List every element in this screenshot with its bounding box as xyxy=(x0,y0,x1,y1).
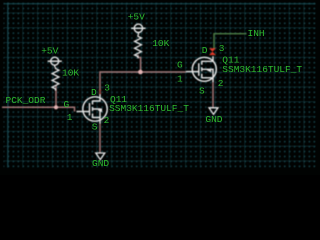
resistor R left 10K xyxy=(52,67,59,91)
svg-text:SSM3K116TULF_T: SSM3K116TULF_T xyxy=(109,103,189,114)
svg-text:SSM3K116TULF_T: SSM3K116TULF_T xyxy=(222,64,302,75)
wire right source to gnd xyxy=(212,82,214,108)
grid major lines xyxy=(4,3,316,168)
wire PCK_ODR net horizontal xyxy=(2,107,75,111)
power +5V left xyxy=(48,57,62,67)
svg-text:D: D xyxy=(91,87,97,98)
wire middle resistor down xyxy=(138,55,141,72)
svg-text:GND: GND xyxy=(205,114,222,125)
wire left drain up and across to right gate xyxy=(100,72,186,95)
svg-text:3: 3 xyxy=(104,83,110,94)
svg-text:10K: 10K xyxy=(62,68,79,79)
ground GND left xyxy=(96,153,105,160)
svg-text:INH: INH xyxy=(248,28,265,39)
node junction left xyxy=(54,105,58,109)
svg-text:2: 2 xyxy=(218,78,224,89)
grid dots xyxy=(4,3,316,168)
wire INH green xyxy=(214,34,247,49)
svg-text:S: S xyxy=(92,122,98,133)
node junction middle xyxy=(138,70,143,75)
wire left resistor to net xyxy=(55,85,57,107)
svg-text:G: G xyxy=(64,99,70,110)
svg-text:+5V: +5V xyxy=(128,11,145,22)
svg-text:G: G xyxy=(177,60,183,71)
svg-text:S: S xyxy=(199,86,205,97)
svg-text:1: 1 xyxy=(67,112,73,123)
unconnect marker X right drain xyxy=(209,48,216,55)
svg-text:3: 3 xyxy=(219,43,225,54)
svg-text:1: 1 xyxy=(177,73,183,84)
svg-text:+5V: +5V xyxy=(41,45,58,56)
page border lines xyxy=(4,3,316,168)
wire left source to gnd xyxy=(99,124,101,154)
svg-text:10K: 10K xyxy=(152,38,169,49)
ground GND right xyxy=(209,108,218,115)
power +5V middle xyxy=(131,24,145,35)
svg-text:2: 2 xyxy=(104,115,110,126)
transistor Q11 right MOSFET xyxy=(186,56,216,82)
svg-text:D: D xyxy=(202,45,208,56)
resistor R middle 10K xyxy=(135,35,142,59)
unconnect marker X left drain xyxy=(98,90,102,94)
svg-text:PCK_ODR: PCK_ODR xyxy=(6,95,46,106)
transistor Q11 left MOSFET xyxy=(77,95,108,124)
svg-text:GND: GND xyxy=(92,158,109,169)
